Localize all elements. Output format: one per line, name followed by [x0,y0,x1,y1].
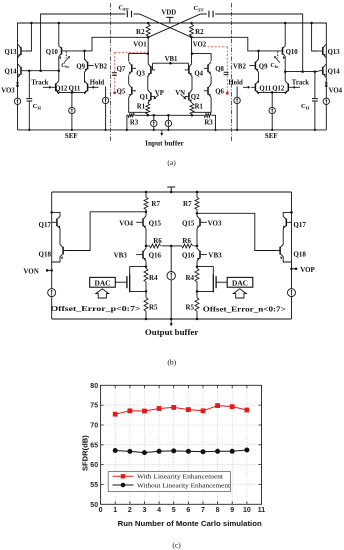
svg-text:Output buffer: Output buffer [145,328,199,337]
svg-text:Q8: Q8 [215,66,224,73]
wire Q7 branch [129,54,148,84]
svg-text:VON: VON [23,268,38,276]
resistor R4 left [144,268,148,283]
svg-text:Without Linearity Enhancement: Without Linearity Enhancement [137,482,230,489]
svg-text:With Linearity Enhancement: With Linearity Enhancement [137,474,223,481]
transistor Q14 right [322,67,324,75]
legend black entry [113,484,134,486]
transistor Q3 [150,66,152,74]
svg-text:4: 4 [157,507,161,514]
resistor R4 right [195,268,199,283]
resistor R3 right [204,113,211,117]
power supply T symbol [167,187,175,192]
svg-text:VDD: VDD [161,10,176,17]
svg-text:5: 5 [172,507,176,514]
svg-text:R6: R6 [182,237,191,245]
wire Q5 emitter to R1 bottom [129,97,148,112]
y axis ticks [101,405,262,484]
svg-text:Q10: Q10 [286,49,299,56]
svg-text:Q13: Q13 [328,49,341,56]
svg-text:70: 70 [90,423,98,430]
svg-text:(a): (a) [167,158,176,167]
wire output buffer top rail [52,191,292,193]
transistor Q14 left [20,67,22,75]
svg-text:VO3: VO3 [208,219,222,227]
svg-text:65: 65 [90,442,98,449]
resistor R3 left [128,113,134,117]
wire Q18R base to R7R node [197,213,277,250]
svg-text:Q9: Q9 [259,63,268,70]
junction Q9R collector tap [257,50,260,53]
wire Q14R base net [285,71,318,73]
svg-text:VB3: VB3 [208,252,222,260]
wire Q15R emitter to R6R [196,229,198,246]
legend box [108,472,230,492]
wire R7R to Q15R [196,211,198,216]
resistor R6 left [146,245,150,247]
wire feed-forward diag to VO1 [148,14,207,37]
wire R5R to rail [196,312,198,319]
svg-text:R5: R5 [185,304,194,312]
svg-text:Q14: Q14 [5,69,18,76]
resistor R2 right [190,24,194,37]
wire feed-forward rail left [41,14,126,71]
svg-text:Q13: Q13 [5,49,18,56]
transistor Q11 right [254,83,256,91]
wire center tail bottom [170,280,172,319]
current source left b [48,289,56,297]
resistor R5 right [195,298,199,313]
svg-text:Track: Track [31,80,48,87]
capacitor Cbc left (parasitic, with arrow) [65,52,67,59]
svg-text:R5: R5 [149,304,158,312]
wire Q9R emitter to Q11R collector [258,72,260,83]
DAC box right [227,277,253,287]
svg-text:Q11: Q11 [69,85,81,92]
svg-text:Track: Track [292,80,309,87]
transistor Q9 right [254,62,256,70]
svg-text:Q10: Q10 [46,49,59,56]
label VB2 right with dash [249,65,251,67]
wire Q16L emitter to R4L [145,261,147,268]
transistor Q7 [131,64,133,72]
svg-text:VB3: VB3 [114,252,128,260]
current source bias left [105,87,107,130]
transistor Q18 right [279,247,281,255]
node VO4 tap [325,85,328,88]
svg-text:Q12: Q12 [55,85,68,92]
wire Q12L collector [58,71,60,81]
wire SEF bottom rail [18,129,327,131]
wire R7L stem [145,192,147,197]
node VON [50,269,53,272]
wire output buffer bottom rail [52,318,292,320]
svg-text:Q9: Q9 [76,63,85,70]
wire Q16L collector [145,246,147,248]
transistor Q16 right [199,251,201,259]
arrow Track into Q12L base [43,86,51,88]
current source IVO3 left [14,98,20,104]
wire R7R stem [196,192,198,197]
svg-text:9: 9 [230,507,234,514]
transistor Q1 [150,93,152,101]
current source tail A [153,115,155,130]
transistor Q5 [131,87,133,95]
svg-text:50: 50 [90,502,98,509]
node VO2 [190,36,193,39]
svg-text:Offset_Error_n<0:7>: Offset_Error_n<0:7> [203,306,286,314]
wire VO1 cascode chain [147,37,149,90]
capacitor CH left [28,71,30,130]
transistor Q17 left (diode connected) [56,219,58,227]
arrow Hold into Q11R base [243,86,249,88]
svg-text:VB2: VB2 [94,63,107,70]
resistor R7 left [144,197,148,210]
svg-text:3: 3 [143,507,147,514]
svg-text:Q1: Q1 [140,94,149,101]
wire left boundary b [51,192,53,319]
junction dots on VDD rail [30,22,33,25]
svg-text:60: 60 [90,462,98,469]
svg-text:Q6: Q6 [215,89,224,96]
MOSFET M1 left [115,281,127,283]
svg-text:11: 11 [258,507,266,514]
capacitor Cbc right (parasitic, with arrow) [277,52,279,59]
svg-text:DAC: DAC [94,279,110,288]
wire feed-forward diag to VO2 [134,14,192,37]
svg-text:Input buffer: Input buffer [145,140,184,148]
resistor R6 right [194,245,198,247]
svg-text:7: 7 [201,507,205,514]
wire feed-forward rail right [215,14,303,72]
svg-text:R4: R4 [185,274,194,282]
junction Q9L collector tap [83,50,86,53]
svg-text:R6: R6 [153,237,162,245]
junction dots on Q14R base net [314,70,317,73]
power VDD symbol [166,17,173,23]
wire R5L to rail [145,312,147,319]
svg-text:Hold: Hold [90,80,105,87]
svg-text:VN: VN [175,90,185,97]
wire Q15L emitter to R6L [145,229,147,246]
svg-text:10: 10 [243,507,251,514]
capacitor parasitic right (red box) [224,72,229,74]
capacitor CFF right [209,11,213,17]
svg-text:Q15: Q15 [149,219,162,227]
svg-text:SEF: SEF [265,132,278,140]
transistor Q2 [188,93,190,101]
svg-text:VO2: VO2 [193,41,207,48]
svg-text:VB1: VB1 [165,56,178,63]
svg-text:Q7: Q7 [117,66,126,73]
svg-text:(b): (b) [167,358,176,367]
svg-text:Hold: Hold [228,80,243,87]
wire Q9L collector [84,51,86,60]
resistor R2 left [146,24,150,37]
wire Q18L base to R7L node [67,212,147,251]
DAC arrow right [233,289,246,298]
svg-text:Q14: Q14 [328,69,341,76]
svg-text:Cbc: Cbc [271,63,279,69]
wire R4R to R5R [196,283,198,298]
wire R7L to Q15L [145,211,147,216]
wire Q12R collector [284,72,286,81]
wire Q9L emitter to Q11L collector [84,72,86,83]
junction dots R3 rail [147,114,150,117]
transistor Q8 [207,64,209,72]
series line with linearity enhancement (red) [115,406,247,415]
svg-text:Q2: Q2 [191,94,200,101]
svg-text:Q18: Q18 [293,251,306,259]
svg-text:Q15: Q15 [182,219,195,227]
series line without linearity enhancement (black) [115,450,247,453]
svg-text:Q17: Q17 [39,221,52,229]
DAC box left [90,277,116,287]
wire right outer column [325,47,327,130]
transistor Q15 right [199,218,201,226]
current source right b [288,289,296,297]
svg-text:Offset_Error_p<0:7>: Offset_Error_p<0:7> [51,305,141,313]
wire Q16R emitter to R4R [196,261,198,268]
label VB2 left with dash [92,65,94,67]
svg-text:R2: R2 [195,28,204,36]
resistor R1 right [190,103,194,115]
transistor Q10 right [282,47,284,54]
red dashed box left [115,51,148,53]
dash-dot half-circuit boundary right [231,3,233,142]
transistor Q18 left [62,247,64,255]
svg-text:75: 75 [90,403,98,410]
series markers red squares [113,412,118,417]
current source bias right [236,87,238,130]
svg-text:VP: VP [155,90,164,97]
capacitor CH right [314,72,316,130]
current source tail B [167,115,169,130]
wire Q16R collector [196,246,198,248]
svg-text:Q3: Q3 [136,70,145,77]
node VO1 [147,36,150,39]
junction dots on Q14L base net [28,69,31,72]
transistor Q17 right (diode connected) [285,219,287,227]
wire R3 rail [127,115,216,130]
resistor R7 right [195,197,199,210]
dash-dot half-circuit boundary left [109,3,111,142]
svg-text:R4: R4 [149,274,158,282]
wire switch pair emitters right [259,92,286,94]
svg-text:R7: R7 [183,200,192,208]
DAC arrow left [96,289,109,298]
current source IVO4 right [323,98,329,104]
chart frame [101,385,262,504]
x axis ticks [101,385,262,504]
svg-text:R1: R1 [137,103,146,110]
transistor Q6 [207,87,209,95]
svg-text:VO3: VO3 [1,88,15,95]
wire Q13R base tap [312,23,319,51]
output marker arrow [170,319,172,323]
transistor Q12 left [55,83,57,91]
svg-text:6: 6 [186,507,190,514]
resistor R5 left [144,298,148,313]
junction dots top rail b [145,191,148,194]
current source tail right [269,107,275,113]
arrow Hold into Q11L base [93,86,99,88]
current source center b [167,272,175,280]
svg-text:Q16: Q16 [182,252,195,260]
wire switch pair emitters left [59,92,85,94]
svg-text:Q11: Q11 [259,85,271,92]
svg-text:Q18: Q18 [39,251,52,259]
svg-text:R2: R2 [136,28,145,36]
svg-text:55: 55 [90,482,98,489]
wire VO2 cascode chain [191,37,194,90]
svg-text:Q12: Q12 [272,85,285,92]
svg-text:R1: R1 [195,103,204,110]
transistor Q10 left [61,47,63,54]
red dashed box right [208,46,228,48]
wire right boundary b [291,192,293,319]
svg-text:Run Number of Monte Carlo simu: Run Number of Monte Carlo simulation [118,519,262,528]
wire Q8 branch [192,54,211,84]
svg-text:0: 0 [99,507,103,514]
wire tail source to rail right [271,114,273,130]
svg-text:(c): (c) [172,541,181,550]
wire VB1 rail [153,63,189,70]
svg-text:Q17: Q17 [293,221,306,229]
transistor Q13 right [322,47,324,55]
arrow Track into Q12R base [293,86,300,88]
svg-text:VOP: VOP [300,266,315,274]
transistor Q15 left [142,218,144,226]
series markers black circles [113,448,118,453]
svg-text:DAC: DAC [232,279,248,288]
wire left outer column [17,47,19,130]
capacitor CFF left [127,11,131,17]
wire Q9R collector [258,51,260,60]
svg-text:VO4: VO4 [119,219,133,227]
svg-text:R3: R3 [130,120,139,127]
svg-text:2: 2 [128,507,132,514]
wire center tail top [170,246,172,272]
svg-text:1: 1 [113,507,117,514]
input marker arrow [161,130,163,133]
current source tail left [69,107,75,113]
svg-text:8: 8 [216,507,220,514]
transistor Q11 left [87,83,89,91]
wire R4L to R5L [145,283,147,298]
resistor R1 left [146,103,150,115]
svg-text:Q4: Q4 [194,70,203,77]
wire VDD rail y23 [18,23,327,47]
wire Q14L base net [25,70,59,72]
transistor Q16 left [142,251,144,259]
svg-text:SEF: SEF [65,132,78,140]
svg-text:VO1: VO1 [133,41,147,48]
transistor Q4 [188,66,190,74]
svg-text:Cbc: Cbc [61,63,69,69]
svg-text:SFDR(dB): SFDR(dB) [81,435,90,471]
label VB3 right with dash [204,254,207,256]
wire tail source to rail left [71,114,73,130]
node VOP [290,268,293,271]
label VO3 b with dash [204,221,207,223]
transistor Q13 left [20,47,22,55]
legend red entry [113,475,134,477]
chart gridlines [101,385,262,504]
wire Q6 emitter to R1R bottom [192,97,211,112]
svg-text:VB2: VB2 [233,63,246,70]
svg-text:R3: R3 [204,120,213,127]
svg-text:R7: R7 [151,200,160,208]
svg-text:VO4: VO4 [329,88,343,95]
capacitor parasitic left (red box) [112,73,117,75]
MOSFET M2 right [216,281,227,283]
node VO3 tap [16,85,19,88]
transistor Q12 right [287,83,289,91]
transistor Q9 left [87,62,89,70]
svg-text:Q5: Q5 [117,89,126,96]
wire Q13L base tap [25,23,31,51]
svg-text:Q16: Q16 [149,252,162,260]
svg-text:80: 80 [90,383,98,390]
